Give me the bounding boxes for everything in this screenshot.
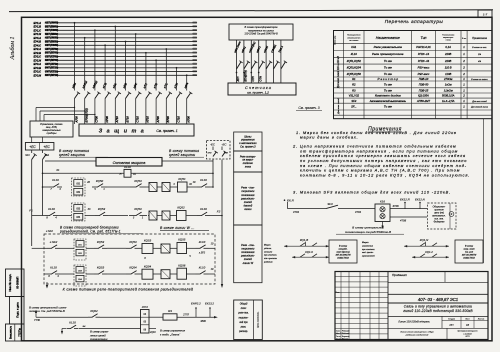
svg-text:Тип: Тип xyxy=(421,36,427,40)
bus line ЕУ2.N xyxy=(34,58,198,62)
title block signature texts xyxy=(336,329,349,340)
svg-text:торите-: торите- xyxy=(239,317,249,319)
bus line end label xyxy=(192,21,197,23)
svg-text:4Т01: 4Т01 xyxy=(293,210,300,214)
protection box Защита xyxy=(79,124,194,136)
svg-text:х.SF2: х.SF2 xyxy=(49,240,58,244)
relay coil КQ54 row E xyxy=(142,264,153,286)
table row КL10 xyxy=(351,52,482,56)
svg-text:КQ55,КQ56: КQ55,КQ56 xyxy=(347,72,362,76)
title block top row xyxy=(388,272,488,283)
disconnector switch 12 xyxy=(187,88,193,124)
bus drop wire 11 xyxy=(176,67,178,88)
svg-text:с жидкой: с жидкой xyxy=(463,332,472,335)
svg-text:Подп. и дата: Подп. и дата xyxy=(16,302,20,318)
svg-text:Перечень аппаратуры: Перечень аппаратуры xyxy=(385,19,444,24)
svg-text:пде чуалипы: пде чуалипы xyxy=(264,257,277,260)
wire row A xyxy=(42,173,214,175)
relay coil КQ55 xyxy=(177,238,191,258)
node ЕК.Я xyxy=(284,198,295,208)
table row SF3 xyxy=(351,99,487,103)
voltage circuit drop нФ1.2кат xyxy=(233,40,243,83)
svg-text:С1Т (С600): С1Т (С600) xyxy=(45,29,58,32)
bus line ЕУ4.В xyxy=(34,40,198,44)
svg-text:КQ53,КQ54: КQ53,КQ54 xyxy=(347,66,362,70)
svg-text:КД-105А: КД-105А xyxy=(418,94,429,98)
svg-text:Автоматический выключатель: Автоматический выключатель xyxy=(369,100,407,103)
svg-text:Для всех линий 110 и 220 кВ: Для всех линий 110 и 220 кВ xyxy=(337,56,340,89)
bus drop wire 6 xyxy=(125,41,127,88)
relay contact КQ53 row D xyxy=(94,240,107,248)
drop label нОВ xyxy=(101,82,107,89)
svg-text:КQ55: КQ55 xyxy=(178,238,186,242)
drop label нКМ xyxy=(71,82,77,89)
voltage circuit drop ТФ0.1 xyxy=(277,40,287,83)
svg-text:КL10: КL10 xyxy=(52,178,59,182)
svg-text:Рабочий: Рабочий xyxy=(342,332,349,335)
svg-text:4Т01: 4Т01 xyxy=(355,210,362,214)
margin box Взам инв xyxy=(6,324,25,341)
table row R1 xyxy=(352,77,488,81)
main protection box Основная защита xyxy=(96,158,162,167)
svg-text:ЕУ2.А: ЕУ2.А xyxy=(34,47,42,51)
station services dashed box xyxy=(428,203,457,229)
svg-text:КL10: КL10 xyxy=(69,321,76,325)
svg-text:SF3: SF3 xyxy=(327,202,333,206)
bus drop wire 5 xyxy=(114,26,116,88)
svg-text:Марки: Марки xyxy=(362,242,369,244)
svg-text:С ч е т ч и к и: С ч е т ч и к и xyxy=(245,85,272,90)
terminal box row D xyxy=(74,239,86,260)
drop label нТВ xyxy=(152,82,158,89)
svg-text:х.SF2: х.SF2 xyxy=(45,229,53,233)
circuit label С710 xyxy=(176,116,180,123)
drop label нТС xyxy=(163,81,170,88)
voltage circuit drop нФС1 xyxy=(255,40,265,83)
svg-text:Изм: Изм xyxy=(336,292,340,294)
svg-text:контакты 6-8 , 9-11 и 10-12: контакты 6-8 , 9-11 и 10-12 реле КQ53 , … xyxy=(300,172,470,177)
relay contact КL10 row D right xyxy=(196,240,214,255)
wire from drop 3 to control box xyxy=(44,114,96,121)
label В схему управления цепей сигнализации xyxy=(89,330,109,341)
notes text xyxy=(292,130,470,195)
table row R2 xyxy=(352,83,465,87)
svg-text:КQ51,КQ52: КQ51,КQ52 xyxy=(347,59,362,63)
drop label н1СШ xyxy=(81,80,88,89)
svg-text:тока: тока xyxy=(245,165,252,168)
bus line end label xyxy=(192,63,197,65)
wire ЕК line left xyxy=(288,208,327,210)
net label ОТН xyxy=(258,72,262,82)
svg-text:См. примеч. 1: См. примеч. 1 xyxy=(156,129,177,133)
svg-text:БТП: БТП xyxy=(466,336,470,338)
svg-text:Р е з и с т о р: Р е з и с т о р xyxy=(378,77,399,81)
svg-text:7ТЛ0: 7ТЛ0 xyxy=(34,319,41,322)
relay coil КQ51 xyxy=(173,177,192,192)
svg-text:В700: В700 xyxy=(166,116,170,123)
relay coil КQ53 row D xyxy=(142,239,153,260)
svg-text:Цепь сигнализа-: Цепь сигнализа- xyxy=(258,311,260,327)
label Марки for right group xyxy=(361,242,375,258)
svg-text:Стадия: Стадия xyxy=(448,319,455,321)
svg-text:робания: робания xyxy=(263,262,273,264)
svg-text:КL10: КL10 xyxy=(50,266,57,270)
box В схему аварийных ламп 1 xyxy=(329,240,357,263)
svg-text:407-03-390,ТМ: 407-03-390,ТМ xyxy=(336,253,351,256)
aux contact group КQ1.В xyxy=(284,238,329,259)
bus drop wire 12 xyxy=(186,74,188,88)
bus drop wire 2 xyxy=(84,37,86,88)
sheet number box top right xyxy=(478,10,492,17)
label В схему питания цепей защиты right xyxy=(169,149,204,157)
svg-text:СТН: СТН xyxy=(252,76,255,81)
svg-text:В схему питания: В схему питания xyxy=(169,149,199,153)
svg-text:В схеме не испол.: В схеме не испол. xyxy=(471,79,488,81)
svg-text:110В: 110В xyxy=(445,72,451,76)
svg-text:КQ1.В: КQ1.В xyxy=(300,238,308,242)
svg-text:С710: С710 xyxy=(136,116,140,123)
bus drop wire 4 xyxy=(104,44,106,88)
svg-text:КQ56: КQ56 xyxy=(178,263,186,267)
svg-text:РЭУ-касс: РЭУ-касс xyxy=(418,66,430,70)
svg-text:7737Гм: 7737Гм xyxy=(19,328,22,337)
node ЕК12.N xyxy=(419,202,421,209)
svg-text:ЕУ3.В: ЕУ3.В xyxy=(34,66,42,70)
relay contact КQ54 xyxy=(129,207,147,220)
svg-text:N1Т (N600): N1Т (N600) xyxy=(45,33,58,36)
svg-text:КL10: КL10 xyxy=(200,178,207,182)
title block bottom row xyxy=(399,328,478,339)
svg-text:ламп (фото): ламп (фото) xyxy=(335,250,350,253)
svg-text:Прибавит: Прибавит xyxy=(392,273,407,277)
svg-text:А4Т (А710): А4Т (А710) xyxy=(44,63,58,66)
label х.SF2 above interlock box xyxy=(45,229,53,233)
svg-text:Ст.ин: Ст.ин xyxy=(336,339,341,341)
relay contact х.SF2 row D xyxy=(47,240,60,248)
svg-text:цепей защиты: цепей защиты xyxy=(59,153,86,157)
bus line ЕУ1.А xyxy=(34,21,198,25)
svg-text:+ЕС: +ЕС xyxy=(29,145,36,149)
circuit label С700 xyxy=(95,116,99,123)
svg-text:Согл: Согл xyxy=(336,330,340,332)
svg-text:N3Т (N700): N3Т (N700) xyxy=(45,59,58,62)
svg-text:Для всех линий: Для всех линий xyxy=(471,100,487,103)
svg-text:110-220кВ См.раб.5540ТМ-В: 110-220кВ См.раб.5540ТМ-В xyxy=(244,33,278,36)
svg-text:авацийн.: авацийн. xyxy=(338,247,347,250)
svg-text:КQ1.2: КQ1.2 xyxy=(425,250,433,254)
table row КН1 xyxy=(351,45,487,49)
bus line end label xyxy=(192,59,197,61)
svg-text:1кОм: 1кОм xyxy=(445,83,452,87)
svg-text:Альбом 1: Альбом 1 xyxy=(9,36,16,60)
terminal box row E xyxy=(74,265,86,286)
svg-text:см. примеч. 1,2: см. примеч. 1,2 xyxy=(247,90,269,94)
circuit label С710 xyxy=(136,116,140,123)
wire label 4Т01 b xyxy=(355,210,362,214)
svg-text:500В,0,5А: 500В,0,5А xyxy=(442,94,455,98)
svg-text:ЕНР2.2: ЕНР2.2 xyxy=(191,302,201,306)
svg-text:407-03-390ТМ: 407-03-390ТМ xyxy=(462,253,477,256)
circuit label В700 xyxy=(166,116,170,123)
svg-text:ЕУ4.А: ЕУ4.А xyxy=(34,36,42,40)
bus drop wire 1 xyxy=(74,22,76,88)
disconnector switch 7 xyxy=(136,88,142,124)
svg-text:КQ54: КQ54 xyxy=(129,240,137,244)
svg-text:V31,V32: V31,V32 xyxy=(349,94,360,98)
svg-text:С4Т (С710): С4Т (С710) xyxy=(45,70,58,73)
relay coil КQ56 row C xyxy=(162,211,170,220)
table header texts xyxy=(335,35,488,45)
svg-text:+ЕС: +ЕС xyxy=(44,145,51,149)
relay coil КL10 xyxy=(120,165,137,177)
svg-text:плюс: плюс xyxy=(241,308,247,310)
svg-text:З а щ и т а: З а щ и т а xyxy=(99,129,146,135)
disconnector switch 3 xyxy=(95,88,101,124)
circuit label N700 xyxy=(105,116,109,123)
svg-text:N710: N710 xyxy=(146,116,150,123)
wire row C xyxy=(32,215,223,217)
title block document title xyxy=(388,305,488,317)
svg-text:Реле - пов-: Реле - пов- xyxy=(241,243,254,247)
svg-text:С700: С700 xyxy=(95,116,99,123)
svg-text:ПЭВ-25: ПЭВ-25 xyxy=(419,89,429,93)
svg-text:линий 110-220кВ подстанций: линий 110-220кВ подстанций 330-500кВ xyxy=(402,309,473,313)
svg-text:АП50-2МТ: АП50-2МТ xyxy=(416,99,430,103)
disconnector switch 5 xyxy=(115,88,121,124)
disconnector switch 11 xyxy=(177,88,183,124)
wire from drop 1 to control box xyxy=(36,107,75,121)
svg-text:См. примеч. 3: См. примеч. 3 xyxy=(298,106,319,110)
table row V31,V32 xyxy=(349,94,466,98)
relay contact КL10 bottom xyxy=(67,321,87,329)
bus line ЕУ3.С xyxy=(34,70,198,74)
net label СТН xyxy=(250,72,254,82)
svg-text:ЕУ3.С: ЕУ3.С xyxy=(34,70,42,74)
margin box Подп и дата xyxy=(10,297,25,325)
svg-text:линии: линии xyxy=(243,208,252,211)
svg-text:положения: положения xyxy=(241,251,255,254)
relay coil row D 2 xyxy=(161,244,170,253)
svg-text:R1: R1 xyxy=(352,77,356,81)
svg-text:SF...: SF... xyxy=(351,105,357,109)
fuse label F2 xyxy=(217,210,221,214)
svg-text:КН1: КН1 xyxy=(351,45,357,49)
drop label нТА xyxy=(142,82,148,89)
svg-text:рабочими соединений: рабочими соединений xyxy=(405,334,429,337)
breaker SF1 left pair xyxy=(25,150,50,160)
svg-text:габ. предо-: габ. предо- xyxy=(362,251,374,254)
meters box Счетчики xyxy=(228,83,296,95)
table row КQ55,КQ56 xyxy=(347,72,466,76)
svg-text:В1Т (В600): В1Т (В600) xyxy=(45,25,58,28)
svg-text:3. Мгновап SF3 является об: 3. Мгновап SF3 является общим для всех л… xyxy=(293,190,451,195)
wire lower branch right xyxy=(149,329,156,335)
svg-text:Шины упр.: Шины упр. xyxy=(335,35,337,45)
svg-text:Реле промежуточное: Реле промежуточное xyxy=(372,52,404,56)
svg-text:18: 18 xyxy=(466,323,470,327)
svg-text:В схему центральной: В схему центральной xyxy=(352,226,384,230)
svg-text:разъедини-: разъедини- xyxy=(240,254,255,258)
svg-text:Юрьев: Юрьев xyxy=(342,339,348,341)
svg-text:убличн.: убличн. xyxy=(263,248,272,250)
svg-text:ПЭВ-50: ПЭВ-50 xyxy=(419,83,429,87)
svg-text:Центральнжекционн: Центральнжекционн xyxy=(458,331,479,333)
svg-text:В схему: В схему xyxy=(339,245,348,247)
disconnector switch 1 xyxy=(75,88,81,124)
svg-text:хQ10: хQ10 xyxy=(149,332,156,334)
svg-text:К16: К16 xyxy=(380,199,385,203)
relay contact КQ02 xyxy=(88,309,100,317)
svg-text:ВТН(ВТН): ВТН(ВТН) xyxy=(245,70,248,81)
svg-text:С710: С710 xyxy=(176,116,180,123)
svg-text:То же: То же xyxy=(384,89,392,93)
svg-text:цепей защиты: цепей защиты xyxy=(169,153,196,157)
album label left margin xyxy=(9,36,16,60)
svg-text:обозначение: обозначение xyxy=(347,37,361,39)
wire lower branch xyxy=(61,329,141,335)
title block stage row xyxy=(388,316,488,328)
svg-text:Фидерная: Фидерная xyxy=(434,221,445,224)
net box Реле-повторители данной линии xyxy=(234,172,262,225)
wire ЕК line right lower xyxy=(390,217,427,223)
voltage circuit drop нФВ1(В1) xyxy=(248,40,258,83)
svg-text:1800: 1800 xyxy=(200,320,206,323)
relay contact КL10 row E xyxy=(47,266,60,279)
svg-text:Для данной линии: Для данной линии xyxy=(470,106,489,109)
svg-text:сигнализации: сигнализации xyxy=(90,338,108,341)
svg-text:КL10: КL10 xyxy=(124,165,131,169)
net box Реле контроля xyxy=(234,151,262,172)
svg-text:В700(В710): В700(В710) xyxy=(85,108,89,122)
svg-text:Общий: Общий xyxy=(240,303,248,306)
svg-text:Нач.О: Нач.О xyxy=(336,333,342,335)
bus line end label xyxy=(192,25,197,27)
disconnector switch 10 xyxy=(166,88,172,124)
svg-text:к табл. „Лампа“: к табл. „Лампа“ xyxy=(160,332,181,336)
svg-text:А710: А710 xyxy=(115,116,119,124)
svg-text:В схему: В схему xyxy=(465,245,474,247)
svg-text:Примечание: Примечание xyxy=(472,36,487,40)
label В схеме линии W xyxy=(160,226,209,230)
supply rail wire xyxy=(43,160,214,162)
svg-text:2ТП7: 2ТП7 xyxy=(182,314,190,317)
circuit label А700 xyxy=(74,116,78,124)
relay coil КQ55 row C xyxy=(149,211,157,220)
svg-text:В3Т (В700): В3Т (В700) xyxy=(45,52,58,55)
wire bottom main xyxy=(36,316,141,318)
svg-text:КQ54: КQ54 xyxy=(144,264,152,268)
node label 26 xyxy=(86,181,90,184)
svg-text:разъединителей. См. раб. 6517Г: разъединителей. См. раб. 6517Гм-1 xyxy=(59,230,121,234)
wire resistor right xyxy=(177,308,218,323)
svg-text:РП16 -14: РП16 -14 xyxy=(418,52,430,56)
relay contact КQ53 row C xyxy=(95,207,108,216)
svg-text:РЭУ21-0,01: РЭУ21-0,01 xyxy=(416,45,431,49)
svg-text:на схеме: на схеме xyxy=(349,40,359,42)
svg-text:0,1А: 0,1А xyxy=(445,45,451,49)
resistor R3 xyxy=(163,309,177,320)
svg-text:С3Т (С700): С3Т (С700) xyxy=(45,55,58,58)
svg-text:ления цепей: ления цепей xyxy=(89,333,106,337)
svg-text:Листов: Листов xyxy=(478,319,485,321)
svg-text:270Ом: 270Ом xyxy=(443,77,453,81)
svg-text:F2: F2 xyxy=(217,210,221,214)
right rail wire xyxy=(212,160,214,188)
svg-text:У2Г2: У2Г2 xyxy=(142,305,149,309)
svg-text:А700: А700 xyxy=(74,116,78,124)
svg-text:Позиционное: Позиционное xyxy=(347,35,361,37)
svg-text:Н: Н xyxy=(120,173,122,176)
bus line ЕУ1.В xyxy=(34,25,198,29)
nodes ЕНР2.2 ЕК13.2 xyxy=(191,302,214,309)
bus line ЕУ2.С xyxy=(34,55,198,59)
svg-text:КQ53: КQ53 xyxy=(134,179,142,183)
svg-text:В4Т (В710): В4Т (В710) xyxy=(45,67,58,70)
title block xyxy=(335,272,488,340)
svg-text:В схему питания: В схему питания xyxy=(59,149,89,153)
svg-text:х.SF2: х.SF2 xyxy=(198,252,206,255)
disconnector switch 9 xyxy=(156,88,162,124)
svg-text:данной: данной xyxy=(244,204,253,208)
svg-text:четыле: четыле xyxy=(264,251,273,253)
drop label нТN xyxy=(173,81,180,88)
svg-text:110 В: 110 В xyxy=(445,66,452,70)
svg-text:Инв.№ подл.: Инв.№ подл. xyxy=(8,274,12,292)
svg-text:А1Т (А600): А1Т (А600) xyxy=(44,22,58,25)
svg-text:220В: 220В xyxy=(444,52,451,56)
label В схеме стационарной блокировки xyxy=(59,225,143,234)
svg-text:ЕК13.2: ЕК13.2 xyxy=(205,302,214,306)
svg-text:1-7: 1-7 xyxy=(483,12,488,16)
net box Реле-повторители линии W xyxy=(234,225,262,283)
svg-text:телей: телей xyxy=(244,200,252,204)
bus line end label xyxy=(192,44,197,46)
svg-text:при кнопочн.: при кнопочн. xyxy=(362,249,375,251)
svg-text:Наименование: Наименование xyxy=(376,36,400,40)
wire stub control box to supply left xyxy=(32,137,43,143)
circuit label В700(В710) xyxy=(85,108,89,122)
note reference См. примеч. 3 xyxy=(296,106,322,111)
svg-text:линии W: линии W xyxy=(242,261,254,265)
box В схеме трансформаторов напряжения xyxy=(229,24,293,40)
svg-text:Марки: Марки xyxy=(264,245,271,247)
bus drop wire 7 xyxy=(135,33,137,88)
svg-text:марки даны в скобках.: марки даны в скобках. xyxy=(300,135,359,140)
bus drop wire 8 xyxy=(145,52,147,88)
relay contact КQ53 row B xyxy=(130,179,146,187)
svg-text:ЕУ3.N: ЕУ3.N xyxy=(34,73,42,77)
svg-text:SF1: SF1 xyxy=(45,154,50,157)
wire row B xyxy=(42,186,214,188)
left rail 2 wire xyxy=(42,161,44,216)
svg-text:05-5889/П: 05-5889/П xyxy=(16,277,20,289)
svg-text:То же: То же xyxy=(384,105,392,109)
apparatus table title xyxy=(385,19,444,24)
svg-text:ЕУ2.N: ЕУ2.N xyxy=(34,58,42,62)
disconnector switch 6 xyxy=(126,88,132,124)
svg-text:ЕК12.Я: ЕК12.Я xyxy=(400,197,410,201)
bus line ЕУ3.А xyxy=(34,62,198,66)
svg-text:Общестан-: Общестан- xyxy=(433,207,446,209)
svg-text:Для всех линий: Для всех линий xyxy=(337,97,340,114)
svg-text:Гл.сп: Гл.сп xyxy=(336,336,341,338)
svg-text:ЕУ1.В: ЕУ1.В xyxy=(34,25,42,29)
bus line ЕУ2.В xyxy=(34,51,198,55)
svg-text:10221ТМ-В: 10221ТМ-В xyxy=(337,257,349,259)
svg-text:R3: R3 xyxy=(168,309,172,313)
bus line end label xyxy=(192,48,197,50)
wire label 4Т01 a xyxy=(293,210,300,214)
